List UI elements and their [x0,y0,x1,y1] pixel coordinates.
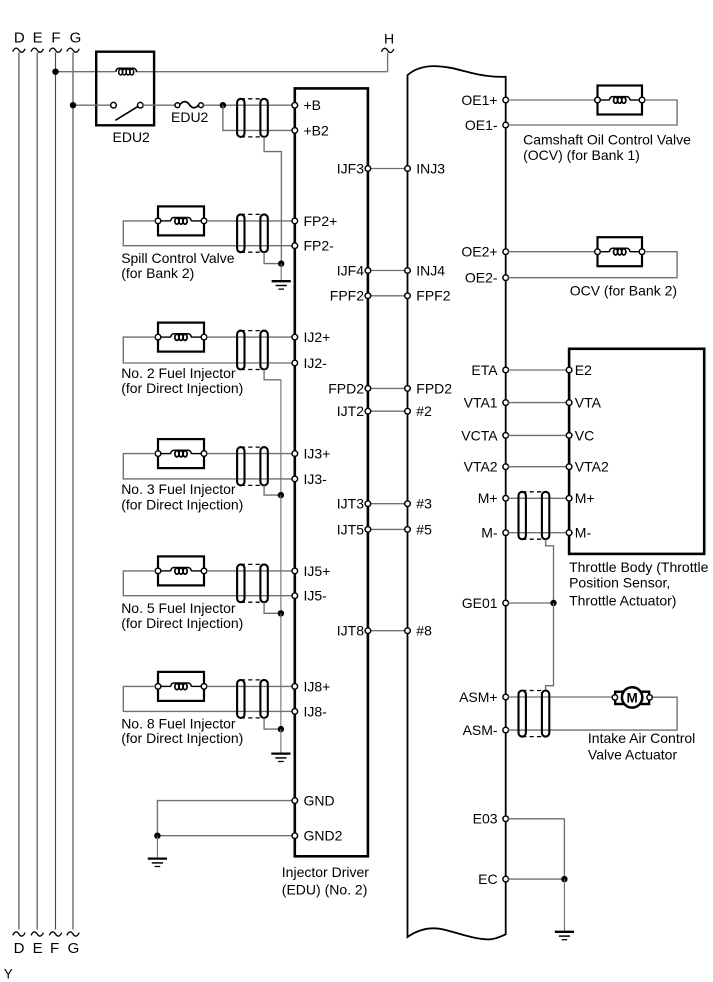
pin +B [292,97,321,113]
pin +B2 [292,122,329,138]
wire FPF2 to ECM [368,295,408,297]
injector no8 terminals [155,684,207,690]
svg-text:IJ5+: IJ5+ [304,563,331,579]
pin IJF3 [337,160,371,176]
pin ETA [471,362,508,378]
shielded pair spill control valve [237,214,268,252]
shielded pair injector no5 [237,564,268,602]
pin IJ5+ [292,563,330,579]
svg-text:Y: Y [4,966,13,981]
wire ECM to throttle VTA2 [508,466,566,468]
pin INJ3 [405,160,446,176]
injector no3 terminals [155,451,207,457]
injector no5 label [121,600,243,631]
shield drain spill control valve [264,252,281,263]
throttle pin M+ [566,490,594,506]
pin IJ2- [292,355,327,371]
pin IJF4 [337,262,371,278]
svg-text:GE01: GE01 [462,595,498,611]
node H break symbol [381,48,393,52]
bus line F [55,53,57,930]
svg-text:M+: M+ [478,490,498,506]
svg-text:(for Direct Injection): (for Direct Injection) [121,730,243,746]
svg-text:#2: #2 [416,403,432,419]
svg-text:Intake Air Control: Intake Air Control [588,730,695,746]
svg-text:(for Direct Injection): (for Direct Injection) [121,496,243,512]
pin ASM+ [459,689,508,705]
wire injector no3 return loop [123,454,292,479]
throttle pin VTA2 [566,459,609,475]
shield junction FP2 [278,260,284,266]
wire IJF4 to ECM [368,270,408,272]
shield drain M pair [546,539,554,603]
bus break symbols top [13,48,80,52]
pin IJ5- [292,588,327,604]
svg-text:#5: #5 [416,521,432,537]
shield drain stub IJ8 [280,729,282,753]
svg-text:Throttle Body (Throttle: Throttle Body (Throttle [569,559,708,575]
EDU box [295,88,368,856]
spill control valve terminals [155,218,207,224]
shield drain bus 2-3 [280,380,282,495]
injector no2 box [158,323,204,352]
svg-text:FP2+: FP2+ [304,213,338,229]
wire E03 [508,819,564,879]
bus line G [72,53,74,930]
wire IJT3 to ECM [368,503,408,505]
pin OE2- [465,270,509,286]
spill control valve label [121,250,235,281]
svg-text:#8: #8 [416,623,432,639]
wire GE01 to shield [508,602,553,604]
wire OE+ to camshaft OCV bank1 [508,99,595,101]
shielded pair +B/+B2 [237,99,268,137]
junction on G [70,102,76,108]
EDU label [282,864,369,897]
svg-text:(for Direct Injection): (for Direct Injection) [121,615,243,631]
wire ECM to throttle VTA [508,402,566,404]
relay EDU2 box [96,52,154,126]
ground GND [148,859,167,867]
svg-text:E: E [33,30,43,47]
svg-text:Camshaft Oil Control Valve: Camshaft Oil Control Valve [523,132,691,148]
motor M actuator [612,687,652,707]
svg-text:E03: E03 [473,811,498,827]
junction node B [220,102,226,108]
svg-text:No. 2 Fuel Injector: No. 2 Fuel Injector [121,365,236,381]
shield junction IJ8 [278,726,284,732]
wire ECM to throttle M- [508,532,566,534]
wire injector no8 return loop [123,686,292,711]
svg-text:ASM-: ASM- [463,722,498,738]
svg-text:OE1-: OE1- [465,117,498,133]
pin IJT8 [337,623,371,639]
svg-text:IJT3: IJT3 [337,496,364,512]
svg-text:OE1+: OE1+ [461,92,497,108]
pin VTA1 [464,395,509,411]
wire fuse to +B [203,104,292,106]
wire OCV bank2 return [508,252,677,278]
camshaft OCV bank1 label [523,147,640,163]
svg-text:VC: VC [575,427,594,443]
svg-text:(EDU) (No. 2): (EDU) (No. 2) [282,882,368,898]
svg-text:(for Bank 2): (for Bank 2) [121,265,194,281]
svg-text:IJT8: IJT8 [337,623,364,639]
shield drain +B pair [264,137,281,264]
pin OE1- [465,117,509,133]
node H label [384,31,394,47]
pin IJ8- [292,703,327,719]
svg-text:H: H [384,31,394,47]
ground shield FP2 [272,281,291,289]
shielded pair injector no3 [237,447,268,485]
bus line E [36,53,38,930]
svg-text:G: G [68,940,80,957]
shield drain injector no3 [264,485,281,495]
pin OE1+ [461,92,508,108]
OCV bank2 coil [598,248,642,255]
injector no3 coil [159,450,203,457]
wire FPD2 to ECM [368,387,408,389]
wire ECM to throttle M+ [508,497,566,499]
injector no2 label [121,365,243,396]
OCV bank2 terminals [595,249,645,255]
svg-text:E: E [33,940,43,957]
svg-text:EC: EC [478,871,497,887]
injector no2 terminals [155,334,207,340]
shield junction IJ5 [278,610,284,616]
svg-text:IJT2: IJT2 [337,403,364,419]
junction on F [52,69,58,75]
injector no5 box [158,556,204,585]
wire ECM to throttle VC [508,434,566,436]
actuator label [588,730,695,762]
wire injector no8 to pin + [207,685,293,687]
wire IJF3 to ECM [368,168,408,170]
wire ECM to throttle E2 [508,369,566,371]
wire node to +B2 [223,105,292,130]
svg-text:Spill Control Valve: Spill Control Valve [121,250,235,266]
pin IJ8+ [292,678,330,694]
wire GND return [157,801,292,836]
shielded pair M+/M- [519,492,550,539]
injector no5 coil [159,568,203,575]
svg-text:ASM+: ASM+ [459,689,498,705]
wire injector no5 to pin + [207,570,293,572]
injector no8 label [121,715,243,746]
svg-text:OCV (for Bank 2): OCV (for Bank 2) [570,283,677,299]
svg-text:IJF3: IJF3 [337,160,364,176]
svg-text:VCTA: VCTA [461,427,498,443]
svg-text:FPF2: FPF2 [330,288,364,304]
pin ASM- [463,722,509,738]
pin FP2+ [292,213,337,229]
pin OE2+ [461,244,508,260]
shield drain bus 5-8 [280,613,282,729]
svg-text:(OCV) (for Bank 1): (OCV) (for Bank 1) [523,147,640,163]
pin FPD2 [328,380,370,396]
wire injector no5 return loop [123,571,292,596]
camshaft OCV bank1 label [523,132,691,148]
camshaft OCV bank1 box [598,86,643,115]
camshaft OCV bank1 coil [598,97,642,104]
wire motor return ASM- [508,697,677,730]
node H riser [387,53,389,72]
wire spill control valve return loop [123,221,292,246]
injector no3 box [158,439,204,468]
throttle pin M- [566,525,591,541]
throttle pin VTA [566,395,601,411]
svg-text:M-: M- [481,525,498,541]
pin M- [481,525,508,541]
injector no3 label [121,481,243,512]
svg-text:Valve Actuator: Valve Actuator [588,747,678,763]
page code Y [4,966,13,981]
svg-text:EDU2: EDU2 [171,109,209,125]
pin GE01 [462,595,509,611]
pin GND2 [292,828,343,844]
svg-text:IJ2-: IJ2- [304,355,328,371]
relay EDU2 label [113,129,151,145]
bus line D [18,53,20,930]
pin VTA2 [464,459,509,475]
wire camshaft OCV bank1 return [508,100,677,125]
svg-text:GND: GND [304,793,335,809]
bus labels top [14,30,81,47]
junction GE01 [550,600,556,606]
svg-text:IJ8-: IJ8- [304,703,328,719]
injector no5 terminals [155,568,207,574]
bus break symbols bottom [13,932,80,936]
svg-text:INJ4: INJ4 [416,262,445,278]
wire EC [508,878,564,880]
throttle pin E2 [566,362,592,378]
camshaft OCV bank1 terminals [595,97,645,103]
wire ASM+ to motor [508,696,613,698]
pin EC [478,871,508,887]
shield drain injector no2 [264,370,281,380]
svg-text:No. 5 Fuel Injector: No. 5 Fuel Injector [121,600,236,616]
svg-text:Injector Driver: Injector Driver [282,864,369,880]
injector no2 coil [159,334,203,341]
svg-text:IJT5: IJT5 [337,521,364,537]
wire spill control valve to pin + [207,220,293,222]
wire IJT2 to ECM [368,410,408,412]
pin INJ4 [405,262,446,278]
shielded pair injector no2 [237,331,268,370]
throttle body box [569,349,704,554]
OCV bank2 label [570,283,677,299]
svg-text:IJ2+: IJ2+ [304,329,331,345]
svg-text:+B2: +B2 [304,122,330,138]
svg-text:Position Sensor,: Position Sensor, [569,575,670,591]
junction EC [561,876,567,882]
shielded pair ASM [519,691,550,737]
shield drain stub FP2 [280,264,282,281]
svg-text:FPD2: FPD2 [328,380,364,396]
bus labels bottom [14,940,80,957]
svg-text:M: M [626,690,637,705]
svg-text:IJF4: IJF4 [337,262,364,278]
ground stub GND [156,836,158,859]
svg-text:GND2: GND2 [304,828,343,844]
svg-text:M-: M- [575,525,592,541]
wire G to relay switch [73,104,111,106]
svg-text:IJ5-: IJ5- [304,588,328,604]
pin E03 [473,811,509,827]
svg-text:EDU2: EDU2 [113,129,151,145]
pin IJT2 [337,403,371,419]
shield drain bus 3-5 [280,495,282,613]
shield drain injector no5 [264,602,281,613]
shielded pair injector no8 [237,680,268,718]
wire IJT8 to ECM [368,630,408,632]
pin IJT5 [337,521,371,537]
wire GND2 return [157,835,292,837]
shield drain GE01 to ASM pair [546,603,554,691]
svg-text:No. 3 Fuel Injector: No. 3 Fuel Injector [121,481,236,497]
wire injector no3 to pin + [207,453,293,455]
svg-text:FPD2: FPD2 [416,380,452,396]
fuse EDU2 label [171,109,209,125]
throttle body label [569,559,708,609]
relay switch [111,102,143,120]
svg-text:VTA: VTA [575,395,602,411]
svg-text:M+: M+ [575,490,595,506]
ground EC [555,932,574,940]
svg-text:ETA: ETA [471,362,498,378]
pin #3 [405,496,432,512]
pin IJ3- [292,471,327,487]
svg-text:IJ3+: IJ3+ [304,446,331,462]
svg-text:VTA2: VTA2 [575,459,609,475]
ECM body outline [408,66,506,939]
svg-text:No. 8 Fuel Injector: No. 8 Fuel Injector [121,715,236,731]
svg-text:FP2-: FP2- [304,238,335,254]
pin FP2- [292,238,334,254]
OCV bank2 box [598,237,643,266]
pin IJ3+ [292,446,330,462]
svg-text:F: F [50,940,59,957]
injector no8 coil [159,683,203,690]
pin GND [292,793,335,809]
pin FPF2 [405,288,451,304]
pin #2 [405,403,432,419]
wire injector no2 to pin + [207,336,293,338]
svg-text:VTA1: VTA1 [464,395,498,411]
pin #8 [405,623,432,639]
pin FPF2 [330,288,371,304]
fuse EDU2 [175,102,203,108]
svg-text:FPF2: FPF2 [416,288,450,304]
wire injector no2 return loop [123,337,292,363]
wire OE+ to OCV bank2 [508,251,595,253]
svg-text:F: F [51,30,60,47]
pin FPD2 [405,380,453,396]
throttle pin VC [566,427,594,443]
ground stub EC [563,879,565,931]
wire relay to fuse [143,104,175,106]
wire F to relay coil to node H [56,71,388,73]
spill control valve coil [159,218,203,225]
svg-text:VTA2: VTA2 [464,459,498,475]
svg-text:Throttle Actuator): Throttle Actuator) [569,593,676,609]
shield drain injector no8 [264,718,281,729]
svg-text:D: D [14,30,25,47]
ground shield IJ8 [271,754,290,762]
junction GND [154,833,160,839]
pin M+ [478,490,509,506]
shield junction IJ3 [278,492,284,498]
injector no8 box [158,672,204,701]
spill control valve box [158,206,204,235]
svg-text:+B: +B [304,97,322,113]
svg-text:G: G [70,30,82,47]
svg-text:OE2+: OE2+ [461,244,497,260]
svg-text:(for Direct Injection): (for Direct Injection) [121,380,243,396]
pin IJ2+ [292,329,330,345]
pin VCTA [461,427,508,443]
wire IJT5 to ECM [368,528,408,530]
svg-text:IJ8+: IJ8+ [304,678,331,694]
pin #5 [405,521,432,537]
svg-text:INJ3: INJ3 [416,160,445,176]
pin IJT3 [337,496,371,512]
svg-text:D: D [14,940,25,957]
svg-text:#3: #3 [416,496,432,512]
svg-text:E2: E2 [575,362,592,378]
relay EDU2 coil [116,68,137,75]
svg-text:OE2-: OE2- [465,270,498,286]
svg-text:IJ3-: IJ3- [304,471,328,487]
